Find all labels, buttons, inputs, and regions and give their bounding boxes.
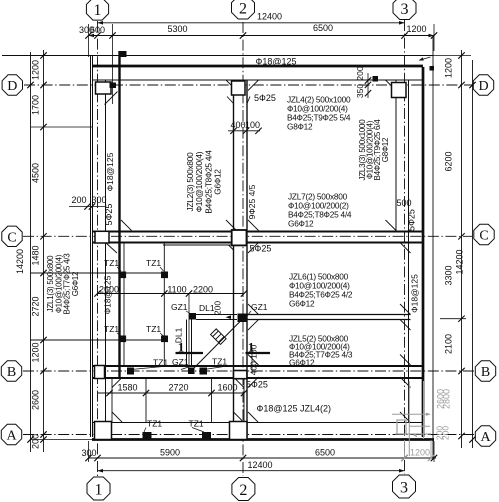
svg-text:350: 350 [355, 84, 365, 98]
bottom bay wall line x112 [111, 377, 113, 423]
column TZ1 on A row right [202, 432, 211, 440]
svg-text:2600: 2600 [31, 390, 41, 410]
chip at top-right corner [430, 66, 435, 71]
west exterior beam edge inner line [92, 56, 94, 438]
axis bubble A right [475, 426, 495, 446]
bottom bay wall line x211 [211, 377, 213, 423]
stair room inner top line [163, 244, 234, 246]
beam taper diagonals below column D/2 [227, 97, 234, 104]
beam top edge between C-B east bay [248, 314, 411, 316]
axis bubble 3 bottom [393, 475, 416, 498]
grid line B (horizontal axis) [23, 370, 474, 372]
column A/1 (hollow) [95, 422, 112, 440]
left chain connector lines [31, 126, 93, 128]
axis bubble D left [2, 75, 22, 95]
gray ghost column outline [397, 420, 406, 434]
svg-text:14200: 14200 [15, 249, 25, 274]
axis bubble B left [1, 361, 21, 381]
beam along C bottom edge [92, 241, 423, 243]
beam along grid 2 east edge [246, 80, 248, 437]
svg-text:1580: 1580 [117, 383, 137, 393]
beam along C top edge [92, 230, 423, 232]
svg-text:1: 1 [95, 481, 103, 498]
grid line A (horizontal axis) [23, 434, 474, 436]
top dimension line segments [89, 35, 435, 37]
svg-text:Ф18@125: Ф18@125 [257, 404, 298, 414]
axis bubble C left [2, 226, 22, 246]
svg-text:200: 200 [441, 426, 451, 440]
svg-text:200: 200 [213, 301, 223, 315]
right chain connector lines [423, 55, 471, 57]
svg-text:TZ1: TZ1 [189, 419, 204, 429]
svg-text:G6Ф12: G6Ф12 [289, 358, 315, 368]
svg-text:G6Ф12: G6Ф12 [71, 271, 80, 296]
axis bubble 3 top [393, 0, 416, 20]
svg-text:5Ф25: 5Ф25 [104, 204, 114, 226]
beam DL1 vertical west edge [186, 320, 188, 366]
svg-text:TZ1: TZ1 [146, 324, 161, 334]
stair flight diagonal with arrow [193, 319, 243, 370]
svg-text:A: A [6, 429, 17, 444]
beam DL1 vertical east edge [191, 320, 193, 366]
svg-text:1480: 1480 [31, 245, 41, 265]
svg-text:Ф18@125: Ф18@125 [103, 275, 113, 314]
axis bubble 2 bottom [232, 478, 255, 501]
column TZ1 on A row left [143, 432, 152, 440]
svg-text:G6Ф12: G6Ф12 [289, 299, 315, 309]
svg-text:14200: 14200 [455, 249, 465, 274]
bottom dimension extension lines [88, 441, 90, 462]
stairwell west thick wall line [118, 51, 120, 377]
grid line 1 (vertical axis) [97, 21, 99, 476]
bottom dimension line segments [89, 457, 437, 459]
stair well line x124 [123, 243, 125, 367]
column B/2 (hollow) [234, 371, 247, 379]
bottom bay wall line x244 [243, 377, 245, 423]
svg-text:TZ1: TZ1 [104, 324, 119, 334]
axis bubble C right [474, 224, 494, 244]
svg-text:12400: 12400 [257, 11, 282, 21]
svg-text:1600: 1600 [217, 383, 237, 393]
label leader ticks [117, 267, 121, 271]
svg-text:2200: 2200 [193, 284, 213, 294]
room corner chamfer lines [105, 92, 118, 105]
svg-text:3: 3 [401, 1, 409, 18]
beam along grid 2 west edge [233, 80, 235, 437]
bottom dimension line total 12400 [98, 470, 405, 472]
svg-text:JZL4(2): JZL4(2) [300, 404, 331, 414]
east beam inner edge [408, 80, 410, 423]
right total dimension chain line [472, 60, 474, 448]
stair landing beam line upper [31, 272, 165, 274]
svg-text:C: C [7, 230, 16, 245]
left total dimension chain line [30, 52, 32, 452]
svg-text:GZ1: GZ1 [251, 302, 268, 312]
beam top edge along D (exterior, thick) [92, 65, 423, 68]
svg-text:1100: 1100 [167, 284, 186, 294]
svg-text:G8Ф12: G8Ф12 [287, 122, 313, 132]
svg-text:TZ1: TZ1 [104, 258, 119, 268]
east exterior beam edge (thick) [422, 67, 425, 437]
svg-text:2: 2 [239, 0, 247, 17]
svg-text:B: B [7, 365, 16, 380]
column TZ1 lower-right [161, 336, 168, 343]
gray dim ticks for 1200 [401, 455, 407, 461]
svg-text:9Ф25 4/5: 9Ф25 4/5 [247, 184, 257, 219]
beam along A bottom exterior edge (thick) [92, 438, 434, 441]
svg-text:5Ф25: 5Ф25 [254, 93, 276, 103]
column TZ1 upper-right [161, 272, 168, 279]
svg-text:Ф18@125: Ф18@125 [105, 152, 115, 191]
canopy / slab edge line top [2, 55, 434, 57]
west beam inner edge [105, 80, 107, 437]
stair well line x164 [163, 243, 165, 367]
stair landing beam line lower [31, 339, 165, 341]
column chip on beam D near dim 350/200 [373, 76, 379, 82]
svg-text:2720: 2720 [31, 296, 41, 316]
grid line 2 (vertical axis) [242, 22, 244, 476]
svg-text:G6Ф12: G6Ф12 [288, 219, 314, 229]
svg-text:6500: 6500 [315, 447, 335, 457]
beam along B bottom edge [92, 377, 423, 379]
column D/2 (hollow) [232, 81, 246, 95]
svg-text:1200: 1200 [444, 58, 454, 78]
svg-text:400: 400 [230, 120, 245, 130]
svg-text:2: 2 [239, 482, 247, 499]
svg-text:200: 200 [355, 66, 365, 80]
grid line D (horizontal axis) [24, 84, 472, 86]
bottom bay wall line x146 [145, 377, 147, 423]
beam DL1 horizontal top edge [196, 314, 237, 316]
right segment dimension chain line [461, 50, 463, 448]
svg-text:1200: 1200 [31, 60, 41, 80]
column C/1 (hollow) [95, 231, 109, 243]
svg-text:5Ф25: 5Ф25 [246, 380, 268, 390]
svg-text:TZ1: TZ1 [146, 258, 161, 268]
svg-text:1200: 1200 [406, 24, 426, 34]
top-right room inner wall line [395, 80, 397, 232]
svg-text:6500: 6500 [313, 23, 333, 33]
svg-text:1: 1 [94, 2, 102, 19]
svg-text:B: B [481, 365, 490, 380]
svg-text:3300: 3300 [444, 265, 454, 285]
axis bubble D right [473, 75, 493, 95]
left segment dimension chain line [43, 50, 45, 452]
axis bubble 2 top [232, 0, 255, 19]
svg-text:A: A [480, 430, 491, 445]
svg-text:Ф18@125: Ф18@125 [256, 57, 297, 67]
axis bubble B right [475, 361, 495, 381]
svg-text:5Ф25: 5Ф25 [250, 244, 272, 254]
svg-text:G8Ф12: G8Ф12 [381, 137, 390, 162]
beam along A top edge [92, 422, 423, 424]
column C/2 (hollow) [232, 230, 247, 245]
svg-text:D: D [7, 79, 17, 94]
column TZ1 on B row right [200, 368, 208, 375]
svg-text:2100: 2100 [444, 334, 454, 354]
column D/1 (hollow) [96, 82, 112, 94]
svg-text:100: 100 [245, 120, 260, 130]
top dimension extension lines [88, 24, 90, 57]
stair bay dimension line 2600/1100/2200 [98, 293, 245, 295]
svg-text:1200: 1200 [410, 447, 430, 457]
column TZ1 upper-left [120, 272, 127, 279]
svg-text:D: D [478, 79, 488, 94]
svg-text:5300: 5300 [167, 24, 187, 34]
svg-text:300: 300 [81, 448, 96, 458]
axis bubble A left [1, 424, 21, 444]
svg-text:2600: 2600 [436, 389, 446, 409]
beam DL1 horizontal bottom edge [196, 319, 237, 321]
column TZ1 on B row left [127, 368, 134, 375]
small dim 350/200 near top right [367, 73, 369, 98]
beam along B top edge [92, 365, 423, 367]
svg-text:200: 200 [31, 434, 41, 449]
column B/1 (hollow) [95, 366, 105, 379]
bottom bay dimension line 1580/2720/1600 [98, 392, 245, 394]
svg-text:600: 600 [90, 25, 105, 35]
svg-text:GZ1: GZ1 [171, 302, 188, 312]
svg-text:TZ1: TZ1 [212, 357, 227, 367]
svg-text:1200: 1200 [31, 342, 41, 362]
gray ghost lines [392, 413, 429, 415]
svg-text:1700: 1700 [31, 95, 41, 115]
svg-text:12400: 12400 [248, 460, 273, 470]
top dimension line total 12400 [98, 22, 405, 24]
svg-text:5900: 5900 [160, 447, 180, 457]
svg-text:2720: 2720 [168, 383, 188, 393]
column GZ1 on B row [188, 368, 195, 375]
svg-text:G6Ф12: G6Ф12 [213, 169, 223, 195]
column TZ1 lower-left [120, 336, 127, 343]
svg-text:500: 500 [396, 198, 411, 208]
canopy / slab edge line right [432, 36, 434, 459]
svg-text:GZ1: GZ1 [172, 357, 189, 367]
svg-text:4500: 4500 [31, 163, 41, 183]
leader arrow top right canopy [420, 57, 431, 60]
beam top inner edge along D [92, 79, 423, 81]
stair room chamfer top-right [229, 245, 234, 250]
svg-text:200: 200 [71, 195, 86, 205]
column D/3 (hollow) [392, 83, 407, 98]
column A/2 (hollow) [230, 422, 248, 440]
beam bottom edge between C-B east bay [248, 319, 411, 321]
column chip at D/1 [110, 83, 117, 89]
grid line 3 (vertical axis) [404, 20, 406, 474]
grid line C (horizontal axis) [23, 235, 472, 237]
west exterior beam edge outer line [90, 56, 92, 438]
column GZ1 left [189, 313, 196, 320]
stair flight tread marks [211, 329, 227, 345]
svg-text:5Ф25: 5Ф25 [407, 209, 417, 231]
column GZ1 at grid 2 [238, 314, 248, 323]
svg-text:TZ1: TZ1 [153, 358, 168, 368]
column chip top-left corner [121, 51, 127, 57]
svg-text:6200: 6200 [444, 151, 454, 171]
svg-text:3: 3 [400, 479, 408, 496]
svg-text:TZ1: TZ1 [147, 419, 162, 429]
axis bubble 1 bottom [87, 477, 110, 500]
axis bubble 1 top [86, 0, 108, 20]
svg-text:Ф18@125: Ф18@125 [410, 274, 420, 313]
svg-text:C: C [479, 229, 488, 244]
svg-text:300: 300 [91, 195, 106, 205]
